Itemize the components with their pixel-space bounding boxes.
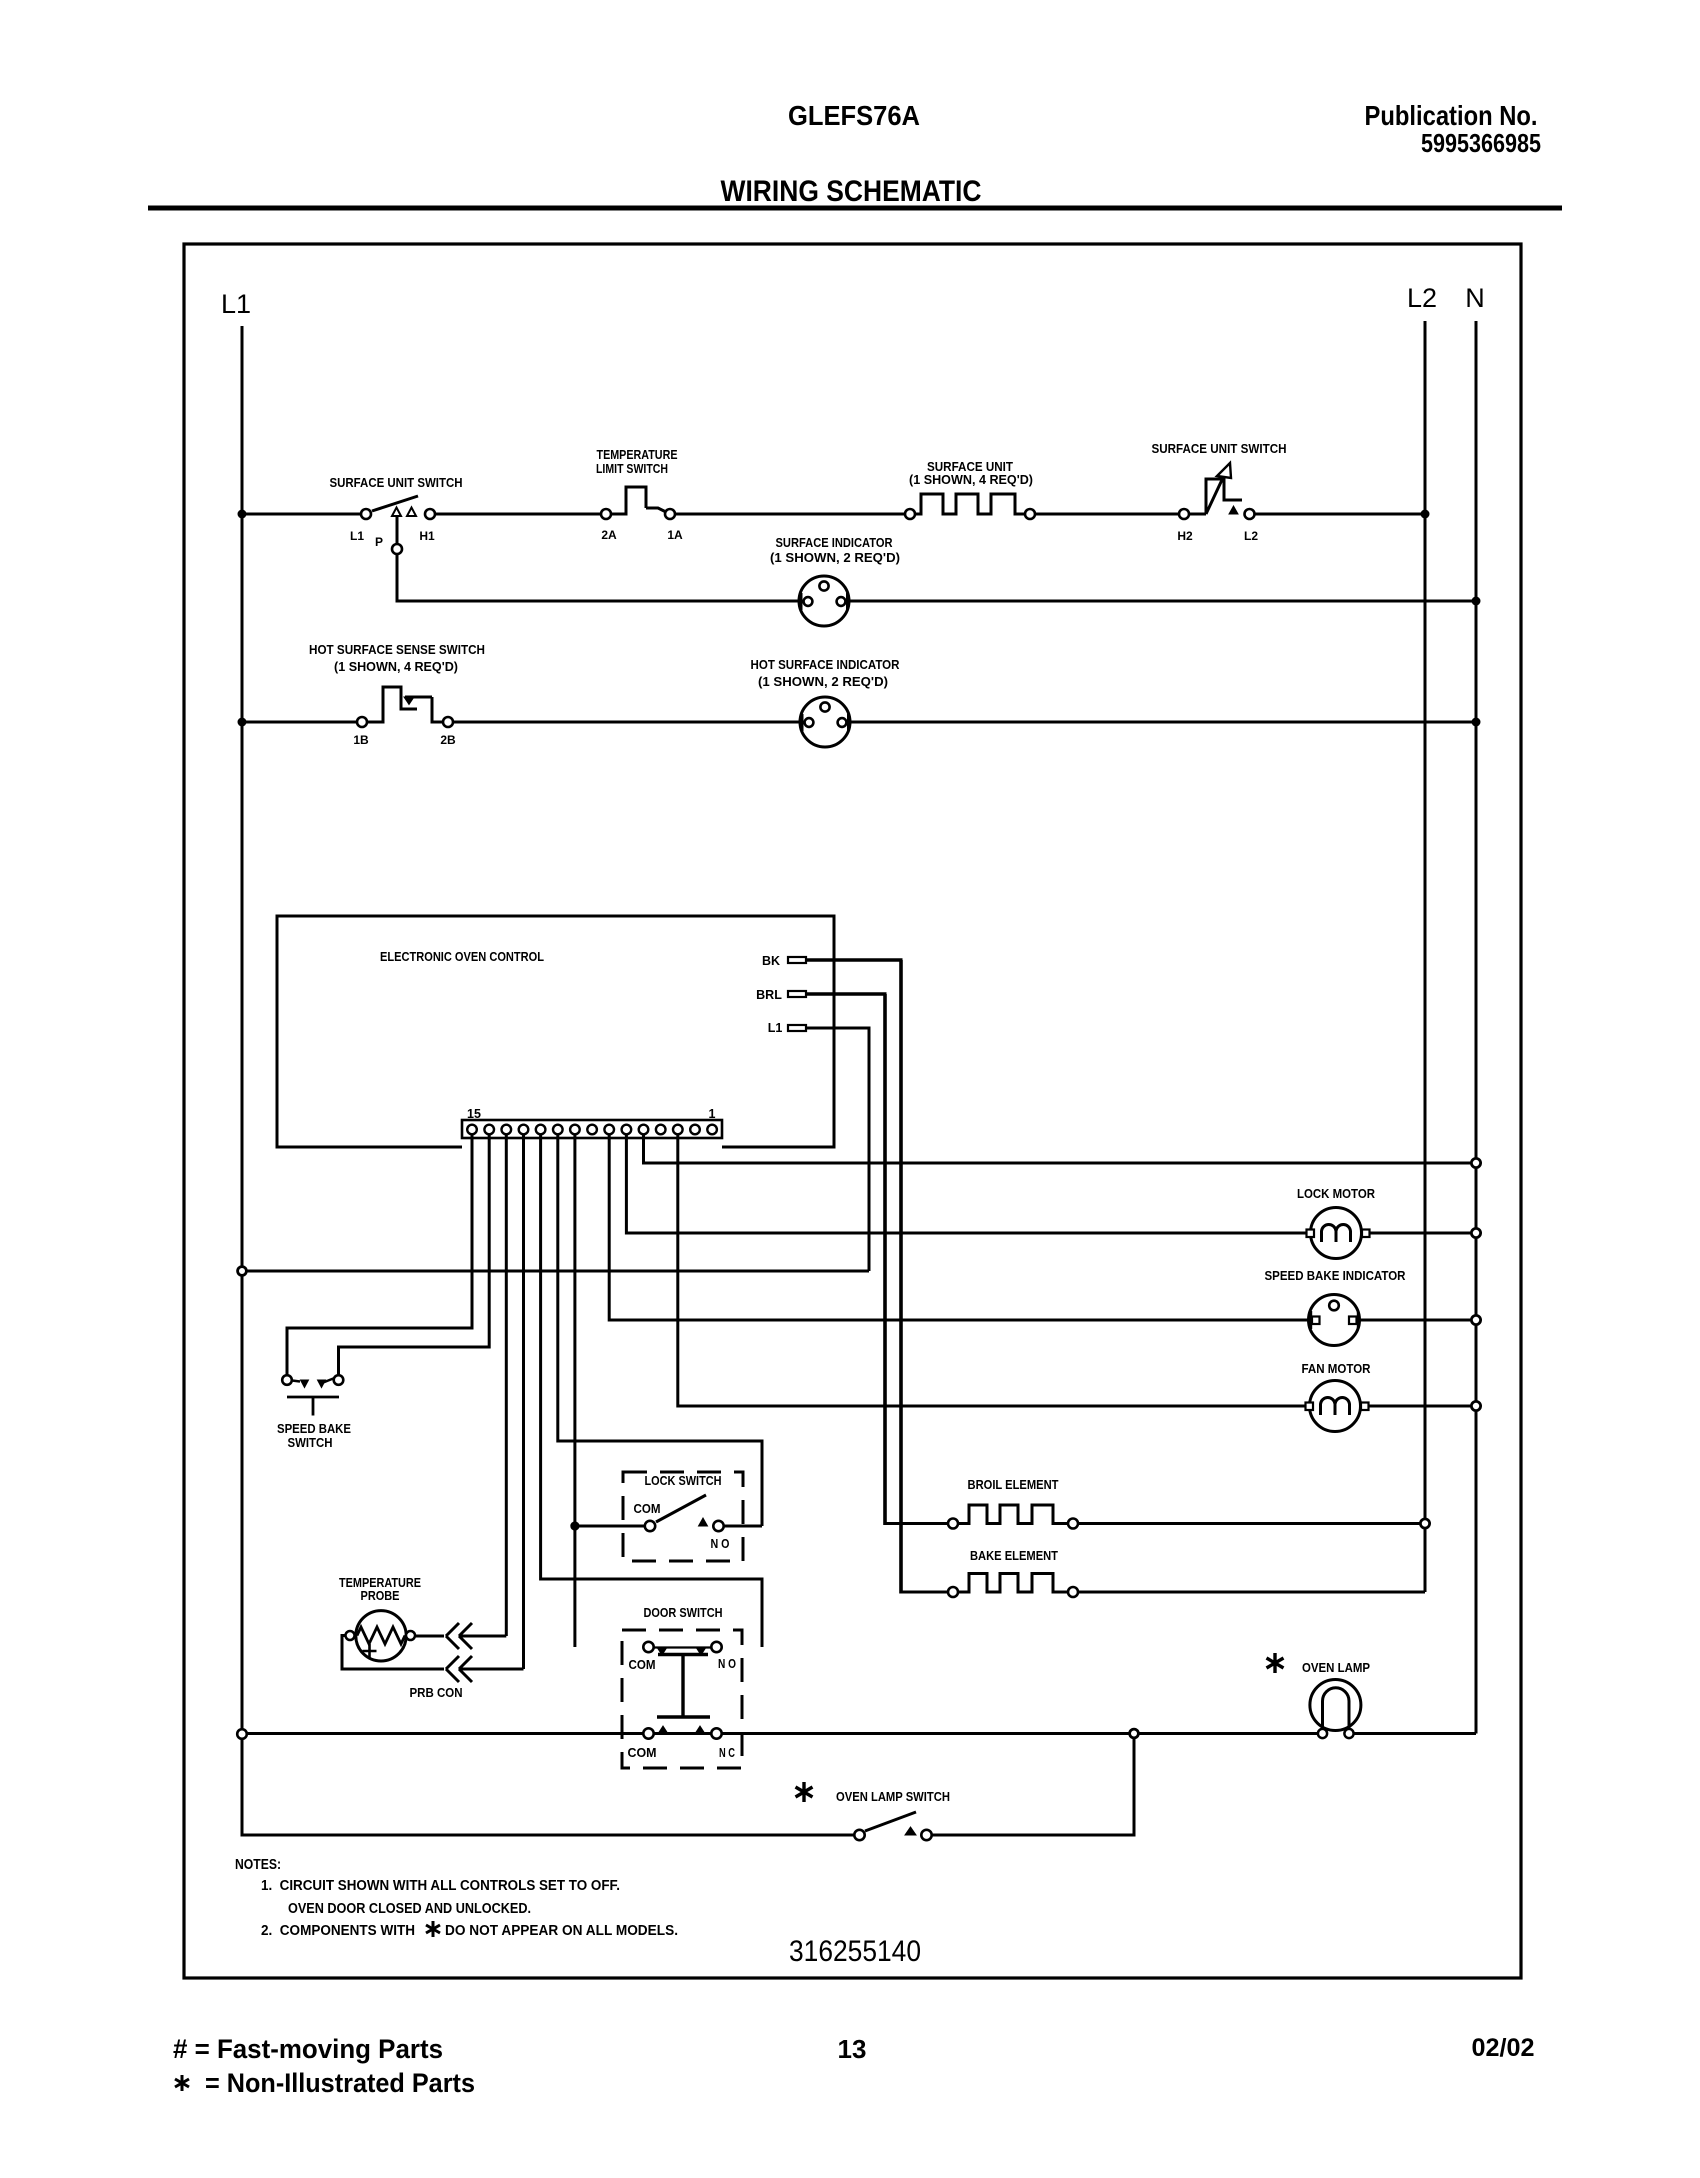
wire BK riser to bake element <box>901 1591 948 1594</box>
svg-text:DO NOT APPEAR ON ALL MODELS.: DO NOT APPEAR ON ALL MODELS. <box>445 1923 678 1939</box>
svg-text:SURFACE UNIT SWITCH: SURFACE UNIT SWITCH <box>1152 441 1287 456</box>
temperature probe right terminal <box>406 1631 415 1640</box>
junction N x pin5 wire <box>1471 1158 1480 1167</box>
surface indicator right chord <box>846 593 849 610</box>
svg-text:L1: L1 <box>768 1021 783 1035</box>
wire pin12 riser to probe return <box>522 1134 525 1669</box>
svg-text:316255140: 316255140 <box>789 1935 921 1968</box>
surface unit switch L1 terminal <box>361 509 371 519</box>
oven lamp body <box>1310 1680 1361 1731</box>
speed bake switch triangle a <box>301 1380 309 1388</box>
wire lock NO to riser <box>724 1525 762 1528</box>
wire fan motor to N <box>1369 1405 1477 1408</box>
hot surface indicator lamp body <box>800 697 850 747</box>
svg-text:WIRING SCHEMATIC: WIRING SCHEMATIC <box>721 175 982 208</box>
door switch top bridge <box>654 1646 711 1648</box>
svg-text:1. CIRCUIT SHOWN WITH ALL CON: 1. CIRCUIT SHOWN WITH ALL CONTROLS SET T… <box>261 1878 620 1894</box>
speed bake switch actuator stem <box>312 1397 315 1416</box>
broil element right terminal <box>1068 1519 1078 1529</box>
oven lamp asterisk <box>1267 1653 1284 1673</box>
svg-text:SPEED BAKE: SPEED BAKE <box>277 1421 351 1436</box>
surface unit left terminal <box>905 509 915 519</box>
wire pin14 riser <box>339 1134 490 1376</box>
wire L1 bus to eoc L1 riser <box>242 1270 869 1273</box>
wire pin3 riser to fan motor <box>678 1134 1306 1406</box>
wire pin11 riser to door NO <box>541 1134 762 1647</box>
svg-text:BK: BK <box>762 954 780 968</box>
hot surface sense switch body <box>367 687 417 722</box>
svg-text:(1 SHOWN, 2 REQ'D): (1 SHOWN, 2 REQ'D) <box>770 550 900 565</box>
wire L2 bus vertical <box>1424 321 1427 1592</box>
svg-text:H2: H2 <box>1177 529 1193 543</box>
svg-text:(1 SHOWN, 4 REQ'D): (1 SHOWN, 4 REQ'D) <box>334 659 458 674</box>
wire pin5 riser to N bus <box>644 1134 1477 1163</box>
hot surface indicator left pin <box>805 718 814 727</box>
door switch NC bottom terminal <box>711 1728 721 1738</box>
surface unit switch blade <box>372 496 418 511</box>
eoc terminal strip <box>462 1120 722 1138</box>
wire L1 to surface unit switch <box>242 513 361 516</box>
svg-text:PRB CON: PRB CON <box>410 1685 463 1700</box>
wire broil element to L2 <box>1078 1522 1425 1525</box>
bake element resistor <box>958 1574 1068 1593</box>
oven lamp right terminal <box>1344 1729 1353 1738</box>
electronic oven control box <box>277 916 834 1147</box>
surface unit switch H1 terminal <box>425 509 435 519</box>
oven lamp left terminal <box>1318 1729 1327 1738</box>
wire P to indicator row <box>397 554 799 601</box>
wire H1 to 2A <box>435 513 601 516</box>
lock switch blade <box>656 1495 706 1522</box>
node junction pin9 x lock feed <box>570 1521 579 1530</box>
eoc strip pins <box>467 1125 717 1135</box>
wire connector to pin13 riser <box>461 1635 506 1638</box>
probe connector chevrons lower <box>446 1656 472 1682</box>
svg-text:HOT SURFACE INDICATOR: HOT SURFACE INDICATOR <box>751 657 901 672</box>
wire pin6 riser to lock motor <box>626 1134 1306 1233</box>
svg-text:LIMIT SWITCH: LIMIT SWITCH <box>596 461 668 476</box>
svg-text:L1: L1 <box>350 529 364 543</box>
door switch actuator <box>657 1655 710 1718</box>
svg-text:SPEED BAKE INDICATOR: SPEED BAKE INDICATOR <box>1265 1268 1407 1283</box>
svg-text:L2: L2 <box>1244 529 1258 543</box>
probe connector chevrons upper <box>446 1623 472 1649</box>
wire surface unit to H2 <box>1035 513 1179 516</box>
speed bake switch right terminal <box>334 1375 344 1385</box>
junction L1 x eoc feed <box>238 1267 247 1276</box>
svg-text:(1 SHOWN, 2 REQ'D): (1 SHOWN, 2 REQ'D) <box>758 674 888 689</box>
svg-text:2B: 2B <box>440 733 456 747</box>
hot surface sense switch right leg <box>432 697 443 722</box>
svg-text:L2: L2 <box>1407 283 1437 313</box>
svg-text:P: P <box>375 535 383 549</box>
junction L1 x row3 <box>238 718 247 727</box>
temperature limit switch 2A terminal <box>601 509 611 519</box>
door switch COM top terminal <box>643 1642 653 1652</box>
surface indicator top pin <box>819 581 828 590</box>
title underline rule <box>148 206 1562 211</box>
svg-text:PROBE: PROBE <box>361 1588 400 1603</box>
speed bake switch blade <box>322 1378 335 1383</box>
svg-text:1B: 1B <box>353 733 369 747</box>
svg-text:N O: N O <box>718 1656 736 1671</box>
wire lower connector to pin12 riser <box>461 1668 524 1671</box>
svg-text:15: 15 <box>467 1107 481 1121</box>
svg-text:TEMPERATURE: TEMPERATURE <box>597 447 678 462</box>
svg-text:COM: COM <box>629 1657 656 1672</box>
wire speed bake indicator to N <box>1360 1319 1477 1322</box>
wire L1 to oven lamp switch <box>242 1834 854 1837</box>
wire L1 branch to door COM bottom <box>247 1732 644 1735</box>
speed bake indicator lamp <box>1309 1295 1360 1346</box>
surface unit switch SW2 body <box>1206 479 1242 514</box>
surface unit switch triangle b <box>407 508 416 517</box>
svg-text:HOT SURFACE SENSE SWITCH: HOT SURFACE SENSE SWITCH <box>309 642 485 657</box>
wire pin10 riser to lock NO <box>558 1134 762 1526</box>
wire L1 riser <box>868 1028 871 1271</box>
BRL plug terminal <box>788 991 806 997</box>
wire 1A to surface unit <box>675 513 905 516</box>
door switch bottom triangle a <box>659 1726 668 1733</box>
junction N x row3 <box>1472 718 1481 727</box>
wire hot surface indicator to N bus <box>850 721 1476 724</box>
surface unit right terminal <box>1025 509 1035 519</box>
speed bake switch triangle b <box>318 1380 326 1388</box>
hot surface indicator top pin <box>820 702 829 711</box>
wire L2 terminal to L2 bus <box>1255 513 1426 516</box>
temperature probe plus mark <box>363 1644 377 1658</box>
svg-text:= Non-Illustrated Parts: = Non-Illustrated Parts <box>205 2068 475 2098</box>
wire door NC to lamp junction <box>722 1732 1134 1735</box>
wire door COM to NC bottom <box>654 1732 712 1735</box>
wire BK riser <box>899 960 903 1594</box>
node L1 lamp-branch terminal circle <box>237 1729 247 1739</box>
door switch top triangle a <box>658 1648 667 1655</box>
broil element left terminal <box>948 1519 958 1529</box>
wire BRL out <box>806 992 887 996</box>
door switch dashed box <box>622 1630 742 1768</box>
junction N x lock motor <box>1471 1228 1480 1237</box>
wire P branch down <box>396 516 399 544</box>
wire oven lamp to N bus <box>1354 1732 1476 1735</box>
bake element right terminal <box>1068 1587 1078 1597</box>
svg-text:FAN MOTOR: FAN MOTOR <box>1302 1361 1372 1376</box>
hot surface sense switch 1B terminal <box>357 717 367 727</box>
svg-text:DOOR SWITCH: DOOR SWITCH <box>644 1605 723 1620</box>
svg-text:N C: N C <box>719 1745 735 1760</box>
lock switch triangle <box>699 1518 708 1526</box>
svg-text:OVEN LAMP: OVEN LAMP <box>1302 1660 1370 1675</box>
junction L1 x row1 <box>238 510 247 519</box>
hot surface indicator right chord <box>847 714 850 731</box>
wire BK out <box>806 958 903 962</box>
note 2 asterisk <box>426 1921 440 1937</box>
wire pin13 riser to probe <box>505 1134 508 1636</box>
surface unit switch triangle a <box>392 508 401 517</box>
footer non-illustrated parts asterisk <box>175 2075 189 2091</box>
speed bake switch stub left <box>292 1381 300 1382</box>
wire indicator to N bus <box>849 600 1476 603</box>
surface unit switch SW2 triangle <box>1229 506 1238 514</box>
surface unit switch P terminal <box>392 544 402 554</box>
bake element left terminal <box>948 1587 958 1597</box>
temperature limit switch body <box>611 487 646 514</box>
svg-text:2. COMPONENTS WITH: 2. COMPONENTS WITH <box>261 1923 415 1939</box>
hot surface sense switch 2B terminal <box>443 717 453 727</box>
wire pin15 riser <box>287 1134 472 1376</box>
lock switch COM terminal <box>645 1521 655 1531</box>
svg-text:NOTES:: NOTES: <box>235 1857 281 1873</box>
wire pin9 riser to lock and door COM <box>573 1134 576 1647</box>
surface unit switch SW2 blade <box>1206 467 1228 514</box>
svg-text:H1: H1 <box>419 529 435 543</box>
svg-text:Publication No.: Publication No. <box>1365 100 1538 131</box>
door switch bottom triangle b <box>696 1726 705 1733</box>
svg-text:02/02: 02/02 <box>1472 2034 1535 2062</box>
surface indicator left pin <box>804 597 813 606</box>
BK plug terminal <box>788 957 806 963</box>
fan motor M2 <box>1306 1381 1369 1432</box>
lock switch NO terminal <box>713 1521 723 1531</box>
svg-text:LOCK MOTOR: LOCK MOTOR <box>1297 1186 1376 1201</box>
wire H2 stub <box>1189 513 1206 516</box>
wire L1 to hot surface sense switch <box>242 721 357 724</box>
svg-text:1: 1 <box>709 1107 716 1121</box>
surface unit switch SW2 H2 terminal <box>1179 509 1189 519</box>
svg-text:GLEFS76A: GLEFS76A <box>788 100 920 131</box>
temperature limit switch 1A terminal <box>665 509 675 519</box>
surface unit switch SW2 L2 terminal <box>1245 509 1255 519</box>
surface indicator left chord <box>800 593 803 610</box>
wire lock feed to COM <box>579 1525 644 1528</box>
svg-text:1A: 1A <box>667 528 683 542</box>
svg-text:13: 13 <box>838 2034 867 2064</box>
surface unit switch SW2 arrowhead <box>1217 463 1231 478</box>
svg-text:L1: L1 <box>221 289 251 319</box>
hot surface indicator right pin <box>838 718 847 727</box>
wire BRL riser <box>883 994 887 1525</box>
svg-text:2A: 2A <box>601 528 617 542</box>
temperature limit switch contact arm <box>646 508 666 512</box>
svg-text:COM: COM <box>628 1745 657 1760</box>
surface indicator lamp body <box>799 576 849 626</box>
svg-text:BROIL ELEMENT: BROIL ELEMENT <box>968 1477 1059 1492</box>
junction N x speed bake indicator <box>1471 1315 1480 1324</box>
svg-text:LOCK SWITCH: LOCK SWITCH <box>645 1473 722 1488</box>
wire lamp switch to riser <box>932 1738 1134 1835</box>
svg-text:BRL: BRL <box>756 988 782 1002</box>
hot surface sense switch triangle <box>404 697 414 705</box>
wire L1 bus vertical <box>241 326 244 1729</box>
wire L1 out <box>806 1027 871 1030</box>
oven lamp switch right terminal <box>921 1830 931 1840</box>
junction L2 x row1 <box>1421 510 1430 519</box>
speed bake switch left terminal <box>282 1375 292 1385</box>
wire probe right to connector <box>415 1635 444 1638</box>
door switch top triangle b <box>697 1648 706 1655</box>
svg-text:5995366985: 5995366985 <box>1421 128 1541 158</box>
speed bake switch actuator bar <box>287 1396 339 1399</box>
door switch COM bottom terminal <box>643 1728 653 1738</box>
wire pin7 riser to speed bake indicator <box>609 1134 1311 1320</box>
broil element resistor <box>958 1505 1068 1524</box>
svg-text:SURFACE UNIT SWITCH: SURFACE UNIT SWITCH <box>330 475 463 490</box>
lock motor M1 <box>1307 1208 1370 1259</box>
svg-text:N: N <box>1465 283 1485 313</box>
hot surface indicator left chord <box>801 714 804 731</box>
wire bake element to L2 <box>1078 1591 1425 1594</box>
wire BRL riser to broil element <box>885 1522 948 1525</box>
door switch NO top terminal <box>711 1642 721 1652</box>
wire junction to oven lamp <box>1138 1732 1319 1735</box>
svg-text:(1 SHOWN, 4 REQ'D): (1 SHOWN, 4 REQ'D) <box>909 472 1033 487</box>
schematic border frame <box>184 244 1521 1978</box>
svg-text:N O: N O <box>711 1536 730 1551</box>
svg-text:COM: COM <box>634 1501 661 1516</box>
svg-text:# = Fast-moving Parts: # = Fast-moving Parts <box>173 2034 443 2064</box>
hot surface sense switch contact line <box>405 696 432 699</box>
temperature probe left terminal <box>346 1631 355 1640</box>
wire lock motor to N <box>1370 1232 1477 1235</box>
oven lamp switch asterisk <box>796 1782 813 1802</box>
junction N x row2 <box>1472 597 1481 606</box>
svg-text:OVEN DOOR CLOSED AND UNLOCKED.: OVEN DOOR CLOSED AND UNLOCKED. <box>288 1901 531 1917</box>
wire L1 bus lower vertical <box>241 1739 244 1837</box>
svg-text:SWITCH: SWITCH <box>288 1435 333 1450</box>
oven lamp switch triangle <box>905 1827 916 1835</box>
temperature probe resistor <box>357 1627 405 1644</box>
junction L2 x broil <box>1420 1519 1429 1528</box>
oven lamp switch left terminal <box>854 1830 864 1840</box>
wire N bus vertical <box>1475 321 1478 1734</box>
wire 2B to hot surface indicator <box>453 721 800 724</box>
surface indicator right pin <box>837 597 846 606</box>
oven lamp filament loop <box>1323 1688 1350 1731</box>
junction lamp branch <box>1130 1729 1139 1738</box>
temperature probe body <box>356 1611 406 1661</box>
lock switch dashed box <box>623 1472 743 1561</box>
oven lamp switch blade <box>865 1812 916 1831</box>
L1 plug terminal <box>788 1025 806 1031</box>
junction N x fan motor <box>1471 1401 1480 1410</box>
svg-text:SURFACE INDICATOR: SURFACE INDICATOR <box>776 535 894 550</box>
surface unit heating element <box>915 494 1025 514</box>
svg-text:BAKE ELEMENT: BAKE ELEMENT <box>970 1548 1058 1563</box>
svg-text:OVEN LAMP SWITCH: OVEN LAMP SWITCH <box>836 1789 950 1804</box>
svg-text:ELECTRONIC OVEN CONTROL: ELECTRONIC OVEN CONTROL <box>380 949 544 964</box>
wire probe left loop <box>342 1636 444 1670</box>
